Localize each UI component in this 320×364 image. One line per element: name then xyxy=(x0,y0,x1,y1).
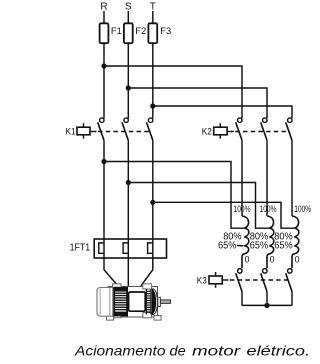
contactor K3 coil xyxy=(197,272,290,288)
wire S from fuse to K1 contact xyxy=(127,43,129,118)
wire S top xyxy=(127,11,129,23)
svg-text:65%: 65% xyxy=(250,241,269,252)
contactor K1 coil xyxy=(66,123,151,138)
motor bottom lug right xyxy=(143,313,152,318)
svg-text:F1: F1 xyxy=(111,26,122,36)
node T branch xyxy=(150,103,155,108)
svg-text:K1: K1 xyxy=(66,126,76,137)
motor terminal box xyxy=(129,292,146,311)
svg-text:S: S xyxy=(125,2,132,13)
node S branch xyxy=(126,85,131,90)
wire K1 pole3 to overload xyxy=(152,140,154,258)
wire K1 pole1 to overload xyxy=(103,140,105,258)
contactor K1 contact pole 3 xyxy=(147,118,153,140)
contactor K3 contact pole 1 xyxy=(236,269,242,292)
contactor K3 contact pole 3 xyxy=(286,269,292,292)
wire R from fuse to K1 contact xyxy=(103,43,105,118)
svg-text:motor: motor xyxy=(192,344,241,359)
motor drive end bell xyxy=(152,289,158,316)
fuse F2 xyxy=(124,23,146,43)
wire K2 pole3 to winding 3 xyxy=(291,140,293,216)
contactor K1 contact pole 1 xyxy=(98,118,104,140)
contactor K2 contact pole 1 xyxy=(236,118,242,140)
fuse F3 xyxy=(148,23,171,43)
svg-text:100%: 100% xyxy=(260,204,277,214)
wire K2 pole1 to winding 1 xyxy=(241,140,243,216)
svg-text:Acionamento: Acionamento xyxy=(74,344,166,359)
contactor K1 contact pole 2 xyxy=(122,118,128,140)
motor foot left xyxy=(107,316,114,321)
wire T from fuse to K1 contact xyxy=(152,43,154,118)
node motor line 3 tap xyxy=(150,200,155,205)
wire motor line 2 to winding 2 tap xyxy=(128,183,269,229)
contactor K2 contact pole 3 xyxy=(286,118,292,140)
node R branch xyxy=(101,63,106,68)
motor foot right xyxy=(154,316,161,321)
node motor line 1 tap xyxy=(101,159,106,164)
svg-text:F2: F2 xyxy=(135,26,146,36)
motor bottom lug left xyxy=(113,313,122,318)
overload relay 1FT1 xyxy=(70,239,167,258)
contactor K2 coil xyxy=(202,123,290,138)
wire branch S to K2 xyxy=(128,88,267,118)
wire K1 pole2 to overload xyxy=(127,140,129,258)
svg-text:0: 0 xyxy=(295,255,300,265)
svg-text:100%: 100% xyxy=(234,204,251,214)
wire R top xyxy=(103,11,105,23)
wire K3 pole3 to star bar xyxy=(291,292,293,306)
motor shaft hub xyxy=(158,297,161,306)
label 65% winding 1 xyxy=(218,241,244,252)
motor fin block B xyxy=(146,289,152,315)
wire K3 pole2 to star bar xyxy=(266,292,268,306)
svg-text:T: T xyxy=(150,2,156,13)
autotransformer winding 1 xyxy=(242,216,249,268)
motor fin block A xyxy=(114,287,128,317)
wire overload to motor terminal 2 xyxy=(127,258,129,287)
contactor K3 contact pole 2 xyxy=(261,269,267,292)
overload heater element 3 xyxy=(148,243,153,253)
svg-text:K2: K2 xyxy=(202,126,212,137)
motor top lug right xyxy=(143,284,152,289)
node star point xyxy=(264,303,269,308)
autotransformer winding 2 xyxy=(267,216,274,268)
wire branch R to K2 xyxy=(104,66,242,118)
svg-text:de: de xyxy=(170,344,186,359)
wire K2 pole2 to winding 2 xyxy=(266,140,268,216)
wire motor line 3 to winding 3 tap xyxy=(153,202,294,228)
node motor line 2 tap xyxy=(126,180,131,185)
wire overload to motor terminal 3 xyxy=(141,258,153,286)
svg-text:0: 0 xyxy=(270,255,275,265)
motor body base xyxy=(108,287,158,318)
motor shaft xyxy=(160,300,170,304)
wire branch T to K2 xyxy=(153,106,292,118)
svg-text:K3: K3 xyxy=(197,275,207,286)
wire K3 pole1 to star bar xyxy=(241,292,243,306)
svg-text:elétrico.: elétrico. xyxy=(247,344,311,359)
svg-text:0: 0 xyxy=(245,255,250,265)
svg-text:F3: F3 xyxy=(160,26,171,36)
motor M1 xyxy=(97,284,170,320)
wire motor line 1 to winding 1 tap xyxy=(104,162,244,229)
svg-text:100%: 100% xyxy=(294,204,311,214)
svg-text:R: R xyxy=(100,2,107,13)
overload heater element 2 xyxy=(123,243,128,253)
svg-text:1FT1: 1FT1 xyxy=(70,242,91,253)
wire overload to motor terminal 1 xyxy=(104,258,118,286)
svg-text:65%: 65% xyxy=(218,241,237,252)
contactor K2 contact pole 2 xyxy=(261,118,267,140)
motor left end cap xyxy=(97,288,113,317)
wire T top xyxy=(152,11,154,23)
fuse F1 xyxy=(100,23,122,43)
overload heater element 1 xyxy=(99,243,104,253)
autotransformer winding 3 xyxy=(292,216,299,268)
svg-text:65%: 65% xyxy=(274,241,293,252)
star point bar xyxy=(242,304,292,306)
motor top lug left xyxy=(113,284,122,289)
